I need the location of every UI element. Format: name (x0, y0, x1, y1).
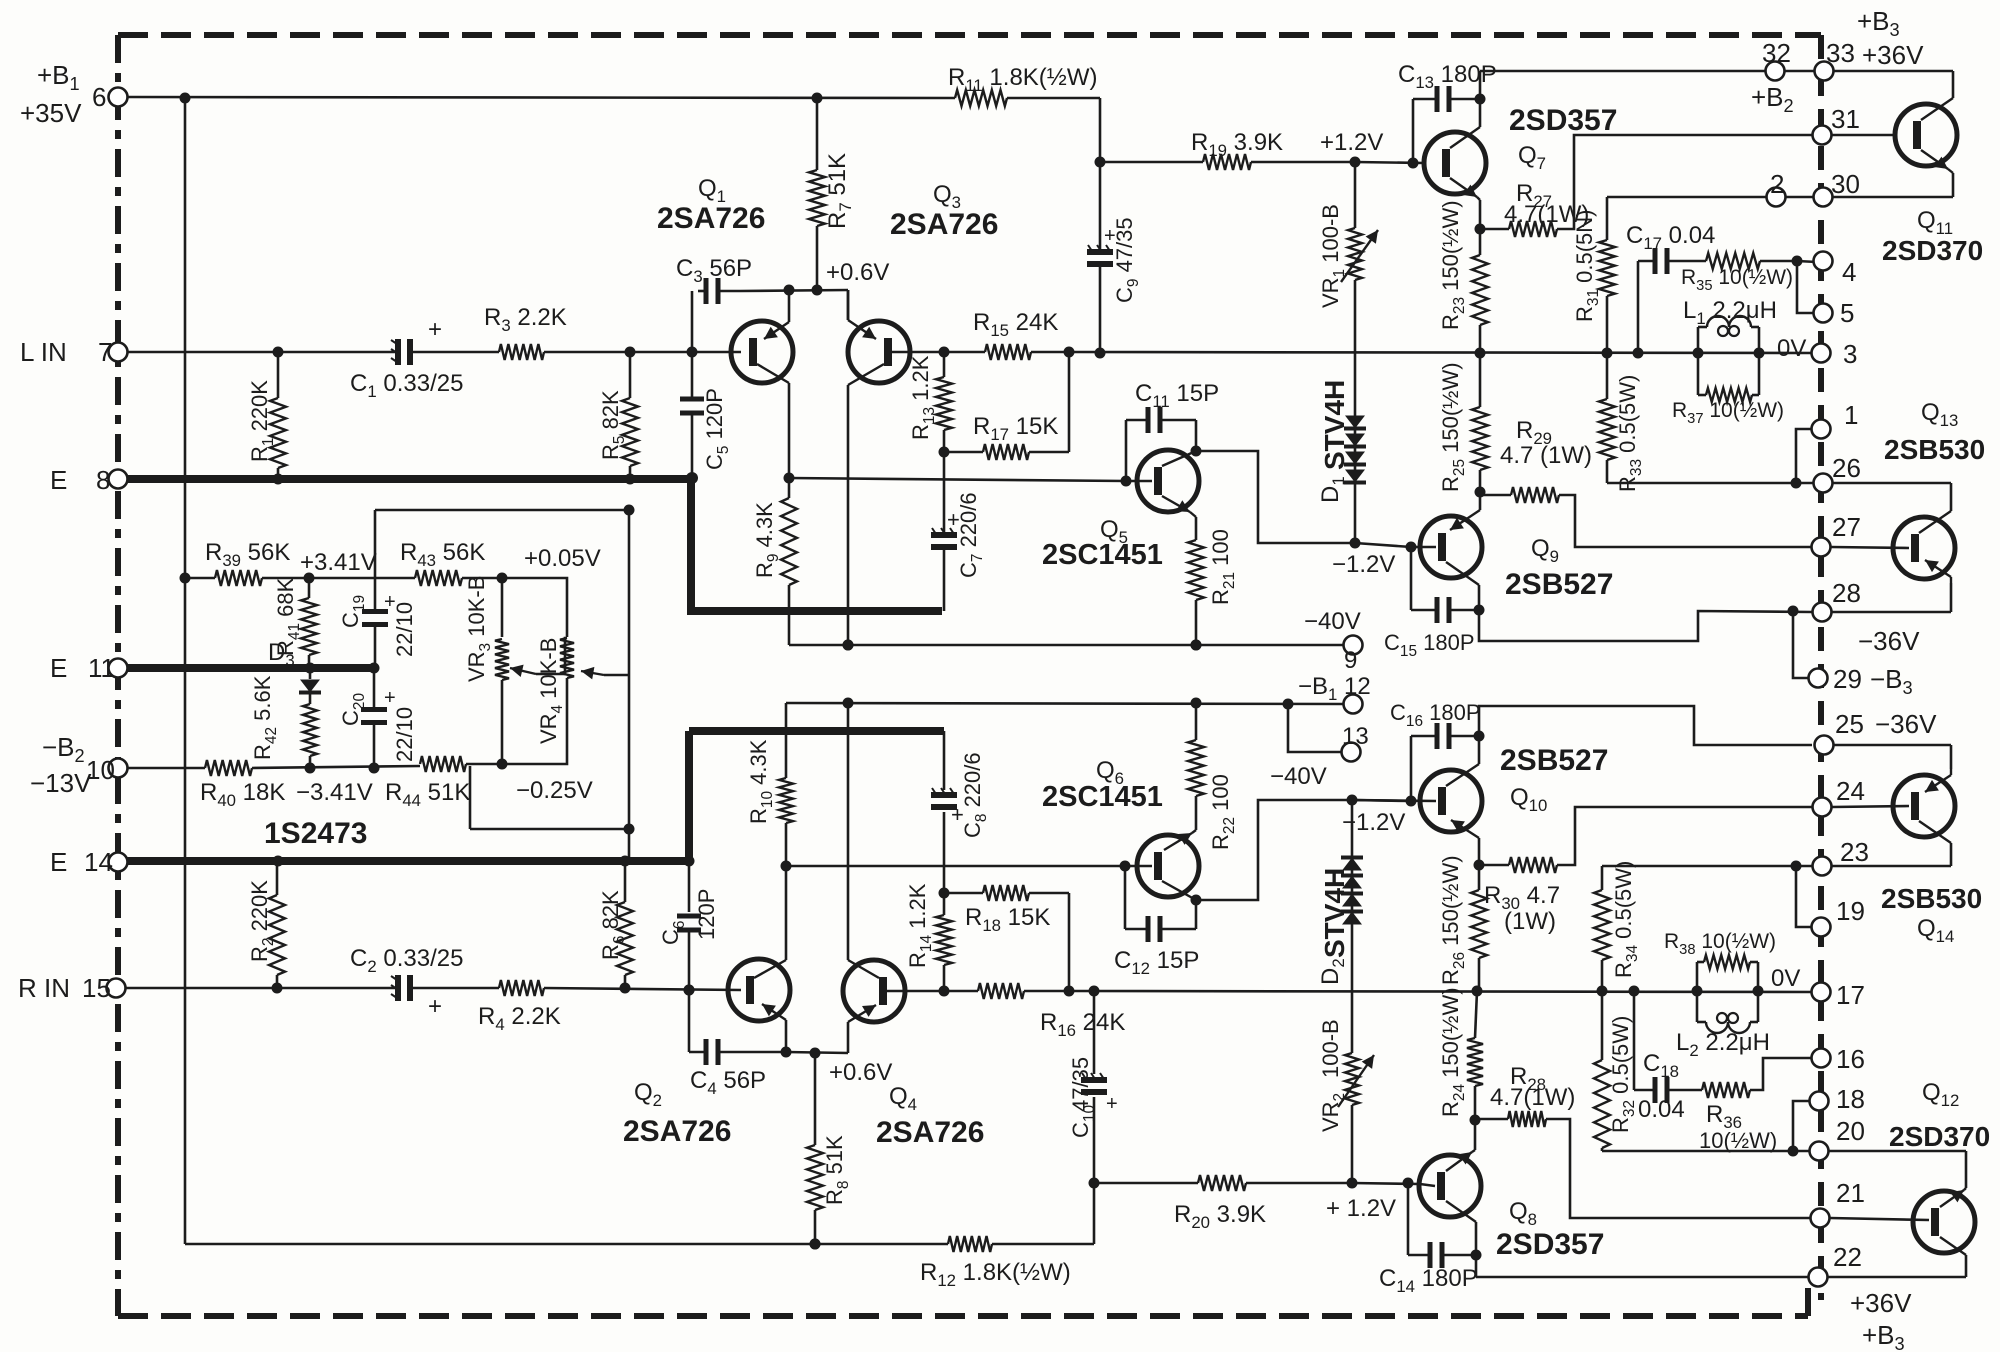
svg-text:8: 8 (96, 465, 110, 495)
svg-text:R43 56K: R43 56K (400, 539, 485, 570)
svg-text:22/10: 22/10 (392, 602, 417, 657)
svg-text:2SD370: 2SD370 (1882, 235, 1983, 266)
svg-text:C11 15P: C11 15P (1135, 380, 1219, 411)
svg-text:23: 23 (1840, 837, 1869, 867)
svg-text:2SB530: 2SB530 (1884, 434, 1985, 465)
svg-text:+: + (1106, 1093, 1118, 1115)
svg-text:C13 180P: C13 180P (1398, 61, 1497, 92)
svg-text:2SC1451: 2SC1451 (1042, 539, 1163, 571)
svg-text:2SD357: 2SD357 (1496, 1228, 1604, 1261)
svg-text:C14 180P: C14 180P (1379, 1265, 1478, 1296)
svg-text:1: 1 (1844, 400, 1858, 430)
svg-text:10(½W): 10(½W) (1699, 1128, 1777, 1153)
svg-text:2SB530: 2SB530 (1881, 883, 1982, 914)
svg-text:6: 6 (92, 82, 106, 112)
svg-text:−1.2V: −1.2V (1342, 809, 1405, 836)
svg-text:R39 56K: R39 56K (205, 539, 290, 570)
svg-text:R19 3.9K: R19 3.9K (1191, 129, 1283, 160)
svg-text:13: 13 (1342, 723, 1369, 750)
svg-text:7: 7 (98, 337, 112, 367)
svg-text:25: 25 (1835, 709, 1864, 739)
svg-text:2SB527: 2SB527 (1500, 744, 1608, 777)
svg-text:+1.2V: +1.2V (1320, 129, 1383, 156)
svg-text:−1.2V: −1.2V (1332, 551, 1395, 578)
svg-text:R3 2.2K: R3 2.2K (484, 304, 567, 335)
svg-text:100-B: 100-B (1318, 1019, 1343, 1078)
svg-text:29: 29 (1833, 664, 1862, 694)
svg-text:47/35: 47/35 (1068, 1057, 1093, 1112)
svg-text:22: 22 (1833, 1242, 1862, 1272)
svg-text:+: + (1104, 225, 1116, 247)
svg-text:+: + (384, 591, 396, 613)
svg-text:C4 56P: C4 56P (690, 1067, 766, 1098)
svg-text:16: 16 (1836, 1044, 1865, 1074)
svg-text:20: 20 (1836, 1116, 1865, 1146)
svg-text:2SD370: 2SD370 (1889, 1121, 1990, 1152)
svg-text:R4 2.2K: R4 2.2K (478, 1003, 561, 1034)
svg-text:28: 28 (1832, 578, 1861, 608)
svg-text:R15 24K: R15 24K (973, 309, 1058, 340)
svg-text:R7 51K: R7 51K (824, 153, 855, 229)
svg-text:31: 31 (1831, 104, 1860, 134)
svg-text:2SA726: 2SA726 (623, 1115, 731, 1148)
svg-text:R IN: R IN (18, 973, 70, 1003)
svg-text:+0.6V: +0.6V (829, 1059, 892, 1086)
svg-text:19: 19 (1836, 896, 1865, 926)
svg-text:+35V: +35V (20, 98, 82, 128)
svg-text:15: 15 (82, 973, 111, 1003)
svg-text:2: 2 (1770, 169, 1784, 199)
svg-text:R40 18K: R40 18K (200, 779, 285, 810)
svg-text:C2 0.33/25: C2 0.33/25 (350, 945, 463, 976)
svg-text:3: 3 (1843, 339, 1857, 369)
svg-text:4.7(1W): 4.7(1W) (1490, 1084, 1575, 1111)
svg-text:10: 10 (86, 755, 115, 785)
svg-text:R18 15K: R18 15K (965, 904, 1050, 935)
svg-text:27: 27 (1832, 512, 1861, 542)
svg-text:21: 21 (1836, 1178, 1865, 1208)
svg-text:32: 32 (1762, 38, 1791, 68)
svg-text:5: 5 (1840, 298, 1854, 328)
svg-text:0.04: 0.04 (1638, 1096, 1685, 1123)
svg-text:+0.05V: +0.05V (524, 545, 601, 572)
svg-text:2SB527: 2SB527 (1505, 568, 1613, 601)
svg-text:−3.41V: −3.41V (296, 779, 373, 806)
svg-text:22/10: 22/10 (392, 707, 417, 762)
svg-text:4.7 (1W): 4.7 (1W) (1500, 442, 1592, 469)
svg-text:18: 18 (1836, 1084, 1865, 1114)
svg-text:4: 4 (1842, 257, 1856, 287)
svg-text:+36V: +36V (1862, 40, 1924, 70)
svg-text:+: + (428, 993, 442, 1020)
svg-text:0V: 0V (1777, 335, 1806, 362)
svg-text:−0.25V: −0.25V (516, 777, 593, 804)
svg-text:2SA726: 2SA726 (876, 1116, 984, 1149)
svg-text:17: 17 (1836, 980, 1865, 1010)
svg-text:E: E (50, 653, 67, 683)
svg-text:STV4H: STV4H (1319, 380, 1350, 470)
svg-text:0V: 0V (1771, 965, 1800, 992)
svg-text:+: + (384, 687, 396, 709)
svg-text:L IN: L IN (20, 337, 67, 367)
svg-text:−40V: −40V (1270, 763, 1327, 790)
svg-text:2SA726: 2SA726 (657, 202, 765, 235)
svg-text:R17 15K: R17 15K (973, 413, 1058, 444)
svg-text:R20 3.9K: R20 3.9K (1174, 1201, 1266, 1232)
svg-text:11: 11 (88, 653, 115, 683)
svg-text:C12 15P: C12 15P (1114, 947, 1199, 978)
svg-text:C17 0.04: C17 0.04 (1626, 222, 1715, 253)
svg-text:E: E (50, 465, 67, 495)
svg-text:1S2473: 1S2473 (264, 817, 367, 850)
svg-text:+: + (428, 316, 442, 343)
svg-text:2SD357: 2SD357 (1509, 104, 1617, 137)
svg-text:STV4H: STV4H (1319, 868, 1350, 958)
svg-text:E: E (50, 847, 67, 877)
svg-text:14: 14 (84, 847, 113, 877)
svg-text:C1 0.33/25: C1 0.33/25 (350, 370, 463, 401)
svg-text:R16 24K: R16 24K (1040, 1009, 1125, 1040)
svg-text:26: 26 (1832, 453, 1861, 483)
svg-text:+36V: +36V (1850, 1288, 1912, 1318)
svg-text:33: 33 (1826, 38, 1855, 68)
svg-text:−13V: −13V (30, 768, 92, 798)
svg-text:9: 9 (1344, 647, 1357, 674)
svg-text:+0.6V: +0.6V (826, 259, 889, 286)
svg-text:+3.41V: +3.41V (300, 549, 377, 576)
svg-text:−40V: −40V (1304, 608, 1361, 635)
svg-text:24: 24 (1836, 776, 1865, 806)
svg-text:120P: 120P (694, 889, 719, 940)
svg-text:2SA726: 2SA726 (890, 208, 998, 241)
svg-text:R44 51K: R44 51K (385, 779, 470, 810)
svg-text:2SC1451: 2SC1451 (1042, 781, 1163, 813)
svg-text:−36V: −36V (1858, 626, 1920, 656)
svg-text:C3 56P: C3 56P (676, 255, 752, 286)
svg-text:30: 30 (1831, 169, 1860, 199)
svg-text:+ 1.2V: + 1.2V (1326, 1195, 1396, 1222)
svg-text:−36V: −36V (1875, 709, 1937, 739)
svg-text:(1W): (1W) (1504, 908, 1556, 935)
